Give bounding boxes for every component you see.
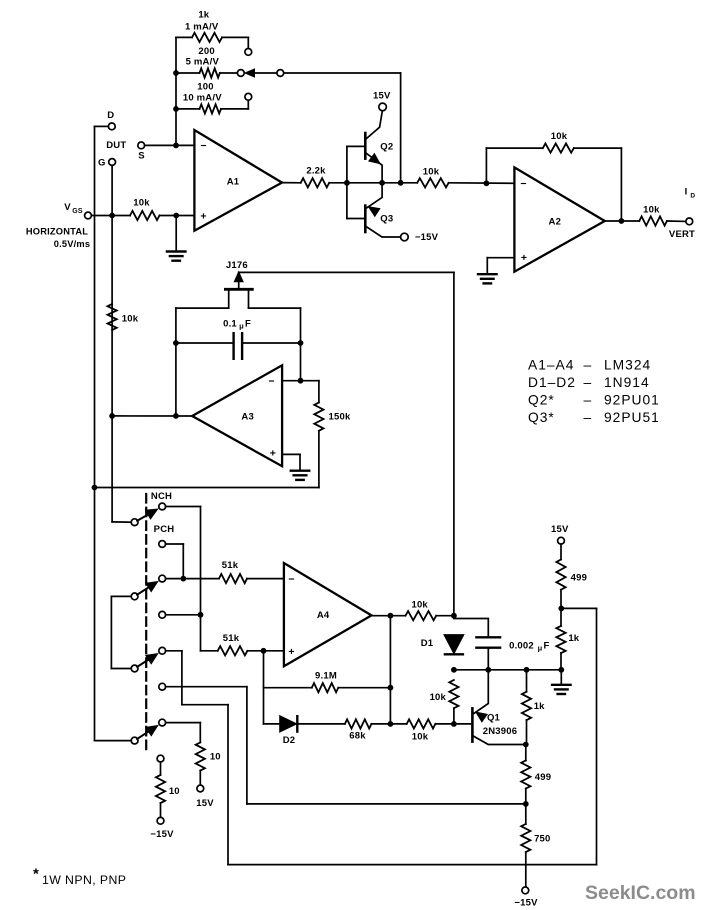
svg-text:2N3906: 2N3906 [483,726,517,737]
svg-text:I: I [685,187,688,198]
svg-text:1k: 1k [568,633,579,644]
svg-text:15V: 15V [196,798,214,809]
svg-text:D2: D2 [283,735,296,746]
svg-text:HORIZONTAL: HORIZONTAL [26,226,88,236]
svg-text:1 mA/V: 1 mA/V [185,21,219,32]
svg-text:+: + [270,447,276,459]
svg-text:100: 100 [197,81,213,92]
svg-text:NCH: NCH [151,491,172,502]
svg-text:1k: 1k [198,10,209,21]
svg-text:Q3: Q3 [380,214,393,225]
svg-text:10k: 10k [412,731,429,742]
svg-text:2.2k: 2.2k [306,165,326,176]
svg-text:−: − [288,573,294,585]
svg-text:10 mA/V: 10 mA/V [183,93,222,104]
svg-text:Q1: Q1 [487,713,501,724]
svg-text:1W NPN, PNP: 1W NPN, PNP [42,873,126,887]
svg-text:–: – [584,393,592,408]
svg-text:Q2: Q2 [380,141,393,152]
svg-text:10: 10 [169,786,180,797]
svg-text:750: 750 [534,834,550,845]
svg-text:μ: μ [239,321,244,330]
svg-text:68k: 68k [349,730,366,741]
svg-text:200: 200 [198,46,214,57]
svg-text:A2: A2 [549,217,562,228]
svg-text:150k: 150k [329,411,351,422]
svg-text:0.5V/ms: 0.5V/ms [54,239,91,249]
svg-text:499: 499 [535,772,551,783]
svg-text:499: 499 [571,573,587,584]
svg-text:10k: 10k [643,204,660,215]
svg-text:D: D [107,110,114,121]
svg-text:A3: A3 [241,412,254,423]
svg-text:0.002: 0.002 [509,640,534,651]
svg-text:LM324: LM324 [604,358,651,373]
svg-text:μ: μ [538,643,543,652]
svg-text:VERT: VERT [669,229,695,240]
svg-text:10k: 10k [133,198,150,209]
svg-text:A1: A1 [227,176,240,187]
svg-text:15V: 15V [551,524,569,535]
svg-text:−: − [200,140,206,152]
svg-text:*: * [33,866,39,883]
svg-text:–: – [584,358,592,373]
svg-text:−: − [520,178,526,190]
svg-text:D: D [690,192,695,199]
svg-text:V: V [64,202,71,213]
svg-text:Q2*: Q2* [528,393,555,408]
svg-text:Q3*: Q3* [528,410,555,425]
svg-text:−15V: −15V [150,829,174,840]
svg-text:10k: 10k [411,600,428,611]
svg-text:92PU01: 92PU01 [604,393,660,408]
svg-text:10: 10 [210,752,221,763]
svg-text:1N914: 1N914 [604,375,650,390]
svg-text:SeekIC.com: SeekIC.com [585,882,696,904]
svg-text:D1: D1 [421,638,434,649]
svg-text:10k: 10k [122,313,139,324]
svg-text:GS: GS [72,208,83,215]
svg-text:10k: 10k [423,167,440,178]
svg-text:F: F [543,640,549,651]
svg-text:–: – [584,375,592,390]
svg-text:51k: 51k [223,633,240,644]
svg-text:51k: 51k [222,560,239,571]
svg-text:0.1: 0.1 [223,318,237,329]
svg-text:A4: A4 [317,610,330,621]
svg-text:1k: 1k [534,701,545,712]
svg-text:J176: J176 [226,260,248,271]
svg-text:–: – [584,410,592,425]
svg-text:−15V: −15V [415,232,439,243]
svg-text:10k: 10k [551,131,568,142]
svg-text:+: + [288,646,294,658]
svg-text:9.1M: 9.1M [315,671,337,682]
svg-text:A1–A4: A1–A4 [528,358,574,373]
svg-text:+: + [200,211,206,223]
svg-text:−15V: −15V [514,898,538,909]
svg-text:S: S [138,151,145,162]
svg-text:10k: 10k [430,692,447,703]
svg-text:G: G [98,157,106,168]
svg-text:−: − [268,375,274,387]
svg-text:F: F [245,318,251,329]
svg-text:15V: 15V [373,90,391,101]
svg-text:5 mA/V: 5 mA/V [186,57,220,68]
svg-text:D1–D2: D1–D2 [528,375,576,390]
svg-text:92PU51: 92PU51 [604,410,660,425]
svg-text:DUT: DUT [106,140,126,151]
svg-text:PCH: PCH [154,524,175,535]
svg-text:+: + [521,252,527,264]
